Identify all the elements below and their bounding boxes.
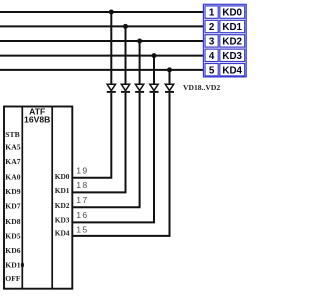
wire bus KD1 <box>0 25 204 27</box>
svg-text:5: 5 <box>209 65 215 76</box>
wire cathode VD19 to pin 18 <box>72 93 125 193</box>
svg-text:KD4: KD4 <box>55 229 70 238</box>
connector cell KD2 <box>220 35 245 47</box>
wire anode drop VD20 <box>139 41 141 85</box>
svg-text:KD6: KD6 <box>5 246 20 255</box>
connector X1 outer border <box>203 4 246 77</box>
svg-text:KD4: KD4 <box>222 65 242 76</box>
svg-text:KD3: KD3 <box>222 51 242 62</box>
connector cell pin 3 <box>205 35 218 47</box>
svg-text:1: 1 <box>209 8 215 19</box>
svg-text:KD2: KD2 <box>222 37 242 48</box>
wire anode drop VD21 <box>153 56 155 85</box>
svg-text:VD18..VD2: VD18..VD2 <box>183 83 220 92</box>
wire anode drop VD18 <box>110 12 112 85</box>
svg-text:18: 18 <box>76 180 88 190</box>
junction dot node KD1 <box>123 24 128 29</box>
svg-text:OFF: OFF <box>5 274 21 283</box>
wire bus KD0 <box>0 11 204 13</box>
svg-text:16: 16 <box>76 210 88 220</box>
diode VD19 <box>121 84 130 92</box>
svg-text:4: 4 <box>209 51 215 62</box>
svg-text:KD2: KD2 <box>55 201 70 210</box>
connector cell KD0 <box>220 6 245 18</box>
svg-text:2: 2 <box>209 22 215 33</box>
connector cell pin 2 <box>205 20 218 32</box>
diode VD18 <box>107 84 116 92</box>
IC ATF 16V8B box <box>4 107 72 289</box>
junction dot node KD2 <box>137 39 142 44</box>
connector cell KD4 <box>220 64 245 76</box>
wire bus KD4 <box>0 69 204 71</box>
diode VD22 <box>165 84 174 92</box>
svg-text:KD1: KD1 <box>55 186 70 195</box>
junction dot node KD3 <box>152 53 157 58</box>
svg-text:KA5: KA5 <box>5 143 20 152</box>
wire anode drop VD19 <box>125 26 127 84</box>
svg-text:KA7: KA7 <box>5 157 20 166</box>
wire anode drop VD22 <box>169 70 171 85</box>
svg-text:19: 19 <box>76 165 88 175</box>
wire cathode VD20 to pin 17 <box>72 93 139 208</box>
svg-text:KD0: KD0 <box>55 172 70 181</box>
svg-text:17: 17 <box>76 195 88 205</box>
diode VD21 <box>150 84 159 92</box>
diode VD20 <box>135 84 144 92</box>
svg-text:KD3: KD3 <box>55 215 70 224</box>
svg-text:KA0: KA0 <box>5 172 20 181</box>
junction dot node KD0 <box>109 10 114 15</box>
label ATF 16V8B <box>24 106 50 124</box>
svg-text:KD9: KD9 <box>5 187 20 196</box>
svg-text:KD5: KD5 <box>5 231 20 240</box>
svg-text:15: 15 <box>76 224 88 234</box>
wire cathode VD21 to pin 16 <box>72 93 154 223</box>
wire bus KD3 <box>0 55 204 57</box>
connector cell pin 5 <box>205 64 218 76</box>
svg-text:KD8: KD8 <box>5 217 20 226</box>
svg-text:KD10: KD10 <box>5 261 24 270</box>
wire bus KD2 <box>0 40 204 42</box>
svg-text:16V8B: 16V8B <box>24 115 50 125</box>
connector cell pin 1 <box>205 6 218 18</box>
svg-text:3: 3 <box>209 37 215 48</box>
connector cell KD1 <box>220 20 245 32</box>
connector cell KD3 <box>220 49 245 61</box>
svg-text:KD0: KD0 <box>222 8 242 19</box>
junction dot node KD4 <box>167 67 172 72</box>
svg-text:KD1: KD1 <box>222 22 242 33</box>
svg-text:STB: STB <box>5 130 19 139</box>
svg-text:KD7: KD7 <box>5 202 20 211</box>
connector cell pin 4 <box>205 49 218 61</box>
wire cathode VD22 to pin 15 <box>72 93 169 236</box>
wire cathode VD18 to pin 19 <box>72 93 111 178</box>
